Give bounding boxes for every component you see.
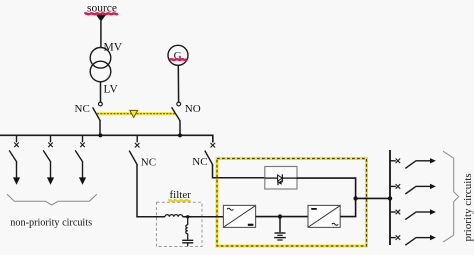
wire inverter output: [340, 198, 355, 216]
wire static switch output: [297, 178, 356, 198]
svg-text:NC: NC: [75, 103, 90, 115]
switch NC main blade: [93, 107, 100, 120]
wire UPS output to priority busbar: [356, 197, 390, 199]
source arrow: [96, 15, 106, 22]
static switch box U3: [265, 167, 297, 190]
junction transformer/busbar: [98, 133, 102, 137]
DC link wire: [256, 216, 308, 218]
feeder 2 (non-priority): [43, 136, 53, 178]
svg-text:filter: filter: [170, 189, 192, 201]
branch NC to filter: [129, 136, 165, 217]
brace priority: [443, 151, 459, 242]
inductor L2 (shunt): [186, 225, 188, 234]
ground: [279, 217, 281, 233]
squiggle under source: [85, 12, 119, 15]
main busbar: [0, 135, 213, 142]
branch NC to static switch: [205, 142, 265, 177]
wire source to transformer: [100, 21, 102, 48]
priority busbar: [389, 150, 391, 245]
wire NC to busbar: [99, 120, 101, 135]
node filter shunt junction: [186, 215, 189, 218]
wire NO to busbar: [179, 120, 181, 135]
svg-text:NC: NC: [192, 156, 207, 168]
wire filter to rectifier: [183, 216, 224, 218]
svg-text:priority circuits: priority circuits: [462, 173, 474, 241]
capacitor C1: [182, 239, 193, 241]
static switch thyristors: [278, 175, 283, 181]
svg-text:NO: NO: [185, 103, 201, 115]
wire shunt down: [187, 217, 189, 225]
priority feeder 2: [390, 184, 430, 194]
inverter box U2: [308, 205, 340, 227]
transformer T1: [90, 48, 111, 69]
generator G: [168, 45, 188, 65]
node UPS output junction: [353, 196, 357, 200]
wire to capacitor: [187, 234, 189, 240]
squiggle under filter: [168, 200, 190, 201]
brace non-priority: [7, 194, 97, 205]
UPS dashed yellow box: [217, 159, 367, 247]
priority feeder 3: [390, 210, 430, 220]
filter dashed box: [157, 202, 203, 246]
feeder 1 (non-priority): [9, 136, 19, 178]
squiggle under G: [170, 58, 187, 61]
switch NO blade: [172, 107, 180, 120]
NC fixed contact: [99, 102, 103, 106]
NO fixed contact: [177, 102, 181, 106]
svg-text:non-priority circuits: non-priority circuits: [10, 217, 92, 228]
node DC link / ground: [278, 214, 282, 218]
junction generator/busbar: [178, 133, 182, 137]
svg-text:LV: LV: [104, 84, 119, 96]
wire transformer to NC contact: [100, 82, 102, 102]
priority feeder 1: [390, 159, 430, 169]
feeder 3 (non-priority): [75, 136, 85, 178]
inductor L1 (series): [165, 215, 183, 217]
svg-text:MV: MV: [104, 42, 123, 54]
priority feeder 4: [390, 235, 430, 245]
svg-text:NC: NC: [141, 157, 156, 169]
rectifier box U1: [223, 205, 255, 227]
interlock link (yellow): [97, 112, 176, 115]
node output/busbar: [388, 196, 392, 200]
wire G to NO contact: [177, 65, 179, 102]
interlock triangle: [130, 110, 138, 117]
wire through static switch: [265, 177, 278, 179]
capacitor stub: [187, 243, 189, 246]
